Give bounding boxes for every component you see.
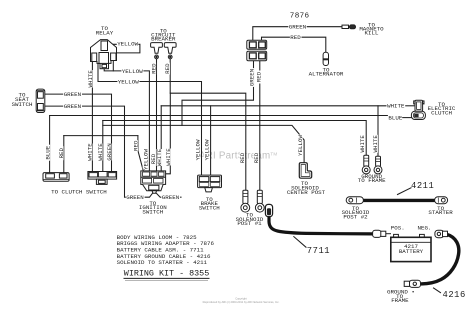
svg-text:4211: 4211: [411, 181, 434, 191]
svg-text:SWITCH: SWITCH: [142, 208, 163, 215]
battery 4217: [391, 237, 431, 261]
svg-text:YELLOW: YELLOW: [142, 149, 149, 170]
svg-text:GREEN: GREEN: [289, 24, 307, 31]
wire seat green2 to ignition green: [45, 106, 153, 197]
svg-text:WHITE: WHITE: [97, 143, 104, 161]
svg-text:4216: 4216: [443, 290, 466, 300]
svg-text:POST #2: POST #2: [343, 213, 368, 220]
label GREEN seat2: [63, 104, 82, 109]
svg-text:YELLOW: YELLOW: [117, 40, 138, 47]
cable lug 7711 start: [265, 204, 272, 216]
svg-text:BREAKER: BREAKER: [151, 36, 176, 43]
connector to relay: [91, 40, 117, 69]
svg-text:NEG.: NEG.: [418, 225, 432, 232]
svg-text:TO CLUTCH SWITCH: TO CLUTCH SWITCH: [51, 188, 107, 195]
svg-text:SWITCH: SWITCH: [199, 204, 220, 211]
wire yellow3 relay to brake switch: [98, 62, 202, 176]
wire red bus clutch-switch to ignition: [64, 135, 138, 137]
label RED 7876 vertical: [256, 71, 263, 84]
label YELLOW ignition vertical: [142, 149, 149, 170]
svg-text:YELLOW: YELLOW: [204, 139, 211, 160]
svg-text:7876: 7876: [290, 13, 310, 21]
cable lug 4216 start: [435, 230, 448, 238]
label WHITE ignition2 vertical: [165, 148, 172, 166]
svg-text:ALTERNATOR: ALTERNATOR: [309, 71, 344, 78]
wire blue bus: [50, 115, 388, 117]
label YELLOW 3: [117, 79, 139, 84]
svg-text:BATTERY: BATTERY: [399, 248, 424, 255]
wire green to magneto kill: [253, 27, 342, 41]
svg-text:GREEN: GREEN: [64, 103, 82, 110]
label WHITE clutch: [387, 103, 406, 108]
label GREEN 7876 vertical: [248, 68, 255, 87]
label BLUE clutch-switch vertical: [44, 145, 51, 161]
svg-text:RED: RED: [150, 63, 157, 74]
svg-text:YELLOW: YELLOW: [195, 139, 202, 160]
svg-text:SOLENOID TO STARTER - 4211: SOLENOID TO STARTER - 4211: [117, 259, 208, 266]
wire red to alternator: [262, 37, 326, 52]
wire clutch-switch red drop: [63, 136, 65, 173]
svg-text:BLUE: BLUE: [44, 145, 51, 159]
wire 7876 red to solenoid post1 ring2: [259, 61, 261, 190]
svg-text:RED: RED: [58, 147, 65, 158]
connector 7876 upper block: [247, 40, 267, 49]
label GREEN mid vertical: [106, 143, 113, 161]
wire ignition white1 riser: [160, 106, 162, 171]
terminal ring solenoid post1 b: [255, 190, 264, 212]
connector to alternator: [323, 52, 328, 65]
svg-text:Reproduced by ARI (c) 2003-201: Reproduced by ARI (c) 2003-2011 by ARI N…: [203, 300, 280, 304]
svg-text:YELLOW: YELLOW: [118, 79, 139, 86]
cable lug 7711 end: [373, 230, 391, 237]
label YELLOW brake2 vertical: [204, 139, 211, 161]
wire 7876 green routing: [182, 61, 254, 126]
svg-text:GREEN: GREEN: [162, 194, 180, 201]
svg-text:WIRING KIT - 8355: WIRING KIT - 8355: [124, 269, 209, 279]
svg-text:WHITE: WHITE: [359, 135, 366, 153]
battery terminal neg: [420, 234, 425, 237]
connector to clutch switch: [43, 173, 69, 182]
label RED cb right: [164, 63, 171, 75]
connector to circuit breaker right: [164, 43, 176, 59]
connector to circuit breaker left: [151, 43, 163, 59]
wire seat green1 to mid connector: [45, 94, 112, 171]
cable 7711 battery positive: [269, 216, 373, 234]
svg-text:RED: RED: [290, 34, 301, 41]
svg-text:FRAME: FRAME: [391, 297, 409, 304]
svg-text:RED: RED: [239, 152, 246, 163]
svg-text:POS.: POS.: [391, 225, 405, 232]
svg-text:WHITE: WHITE: [87, 70, 94, 88]
svg-text:RED: RED: [256, 71, 263, 82]
label WHITE mid2 vertical: [97, 143, 104, 161]
svg-text:WHITE: WHITE: [387, 103, 405, 110]
cable lug 4211 right: [435, 197, 448, 204]
connector to ignition switch: [141, 171, 166, 193]
svg-text:RED: RED: [132, 140, 139, 151]
label RED cb left: [150, 63, 157, 75]
svg-text:STARTER: STARTER: [428, 209, 453, 216]
wire yellow2 relay tab to ignition yellow: [104, 69, 149, 171]
svg-text:RELAY: RELAY: [96, 29, 114, 36]
wire white bus L1 to electric clutch: [161, 105, 386, 107]
svg-text:RED: RED: [253, 152, 260, 163]
connector to brake switch: [198, 175, 222, 192]
svg-text:CENTER POST: CENTER POST: [287, 189, 326, 196]
label GREEN seat1: [63, 92, 82, 97]
wire white bus L3 to ground1: [103, 121, 366, 156]
cable 4216 battery ground: [421, 234, 459, 284]
svg-text:RED: RED: [164, 63, 171, 74]
label BLUE clutch: [388, 115, 402, 120]
svg-text:YELLOW: YELLOW: [297, 135, 304, 156]
svg-text:7711: 7711: [307, 246, 330, 256]
label YELLOW 1: [117, 41, 139, 46]
svg-text:BLUE: BLUE: [388, 114, 402, 121]
wire red riser to ignition pin1: [138, 136, 143, 171]
label WHITE ignition1 vertical: [156, 148, 163, 166]
battery terminal pos: [394, 234, 399, 237]
label WHITE mid1 vertical: [87, 143, 94, 161]
wire 7711 label leader: [294, 237, 306, 248]
connector to seat switch: [36, 89, 45, 112]
label WHITE ground2 vertical: [372, 135, 379, 153]
wire 4216 label leader: [434, 288, 441, 293]
label RED ignition1 vertical: [132, 140, 139, 151]
cable lug 4211 left: [346, 197, 363, 204]
label RED sol2 vertical: [253, 151, 260, 165]
label GREEN magneto: [288, 24, 306, 29]
label WHITE relay vertical: [87, 70, 94, 88]
wire ignition white2 feed: [166, 93, 170, 174]
label WHITE ground1 vertical: [359, 135, 366, 153]
label RED clutch-switch vertical: [58, 146, 65, 160]
svg-text:CLUTCH: CLUTCH: [431, 110, 452, 117]
label YELLOW solenoid center vertical: [297, 135, 304, 157]
wire brake switch second drop: [210, 106, 212, 175]
svg-text:GREEN: GREEN: [126, 194, 144, 201]
wire L4 bus to solenoid center post: [103, 125, 304, 162]
connector to solenoid center post: [299, 163, 311, 179]
svg-text:KILL: KILL: [365, 30, 379, 37]
svg-text:POST #1: POST #1: [237, 220, 262, 227]
terminal ring ground1: [362, 155, 370, 174]
svg-text:TO FRAME: TO FRAME: [358, 177, 386, 184]
label YELLOW brake1 vertical: [195, 139, 202, 161]
wire CB right red to solenoid post1: [170, 59, 246, 190]
label RED ignition2 vertical: [150, 153, 157, 166]
connector to electric clutch plug tongue: [414, 100, 424, 111]
label RED alternator: [290, 35, 302, 40]
svg-text:WHITE: WHITE: [87, 143, 94, 161]
svg-text:YELLOW: YELLOW: [122, 68, 143, 75]
svg-text:SWITCH: SWITCH: [12, 101, 33, 108]
svg-text:WHITE: WHITE: [372, 135, 379, 153]
label GREEN ignition right: [161, 195, 180, 200]
connector 7876 lower block: [247, 51, 267, 61]
wire ignition green right stub: [156, 193, 181, 197]
wire relay white drop: [91, 62, 93, 172]
connector to magneto kill bullet: [342, 25, 356, 29]
wire yellow1 relay top pin loop: [108, 44, 140, 53]
terminal ring solenoid post1 a: [241, 190, 250, 212]
wire mid connector white2 drop: [102, 121, 104, 172]
label RED sol1 vertical: [239, 151, 246, 165]
cable 4211 solenoid to starter: [363, 199, 437, 202]
svg-text:WHITE: WHITE: [156, 148, 163, 166]
label YELLOW 2: [121, 68, 143, 73]
terminal ring ground2: [374, 156, 382, 174]
connector mid white-white-green: [88, 172, 117, 185]
thick cables: [269, 200, 459, 284]
connector to electric clutch boot base: [411, 111, 425, 119]
wire clutch-switch blue drop: [49, 116, 51, 173]
cable lug 4216 end: [404, 280, 420, 287]
svg-text:GREEN: GREEN: [248, 68, 255, 86]
svg-text:GREEN: GREEN: [64, 91, 82, 98]
label GREEN ignition left: [126, 195, 145, 200]
wire relay right pin stub: [112, 61, 114, 71]
svg-text:WHITE: WHITE: [165, 148, 172, 166]
wire ground2 drop: [377, 106, 379, 156]
wire 4211 label leader: [398, 188, 412, 195]
svg-text:GREEN: GREEN: [106, 143, 113, 161]
wire CB left red to ignition: [156, 59, 158, 171]
